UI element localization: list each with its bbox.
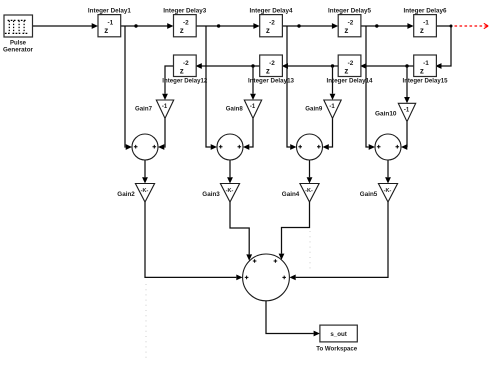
svg-text:To Workspace: To Workspace [316,346,357,353]
svg-text:-1: -1 [329,104,335,110]
svg-text:z: z [266,66,270,75]
svg-text:z: z [180,66,184,75]
svg-text:z: z [344,26,348,35]
svg-text:z: z [344,66,348,75]
svg-text:z: z [180,26,184,35]
svg-text:Integer Delay3: Integer Delay3 [163,7,206,14]
svg-text:Gain8: Gain8 [226,106,243,113]
svg-text:Integer Delay5: Integer Delay5 [328,7,371,14]
svg-text:Gain5: Gain5 [360,191,378,198]
svg-text:-1: -1 [423,60,429,67]
svg-text:-K-: -K- [226,188,234,194]
svg-text:Integer Delay4: Integer Delay4 [250,7,293,14]
svg-text:Integer Delay6: Integer Delay6 [404,7,447,14]
svg-text:-2: -2 [348,20,354,27]
svg-text:Gain3: Gain3 [202,191,220,198]
svg-text:-2: -2 [183,60,189,67]
svg-text:-K-: -K- [384,188,392,194]
svg-text:-K-: -K- [305,188,313,194]
svg-text:-K-: -K- [141,188,149,194]
svg-text:-2: -2 [348,60,354,67]
svg-text:-1: -1 [162,104,168,110]
svg-text:-2: -2 [269,60,275,67]
svg-text:z: z [420,66,424,75]
svg-text:-1: -1 [423,20,429,27]
svg-text:-1: -1 [250,104,256,110]
svg-text:Generator: Generator [3,47,33,54]
svg-text:Integer Delay1: Integer Delay1 [88,7,131,14]
svg-text:z: z [104,26,108,35]
svg-text:-2: -2 [269,20,275,27]
svg-text:z: z [420,26,424,35]
svg-text:Gain4: Gain4 [282,191,300,198]
svg-text:Integer Delay12: Integer Delay12 [162,78,207,85]
svg-text:Integer Delay14: Integer Delay14 [327,78,373,85]
svg-text:-1: -1 [107,20,113,27]
svg-text:-2: -2 [183,20,189,27]
svg-text:Gain10: Gain10 [375,111,397,118]
svg-text:Gain7: Gain7 [135,106,152,113]
svg-text:Integer Delay15: Integer Delay15 [403,78,448,85]
svg-text:Gain2: Gain2 [117,191,135,198]
svg-text:-1: -1 [404,108,410,114]
svg-text:z: z [266,26,270,35]
svg-text:Integer Delay13: Integer Delay13 [248,78,294,85]
svg-text:Pulse: Pulse [10,39,26,46]
svg-text:Gain9: Gain9 [305,106,322,113]
svg-text:s_out: s_out [330,331,347,338]
